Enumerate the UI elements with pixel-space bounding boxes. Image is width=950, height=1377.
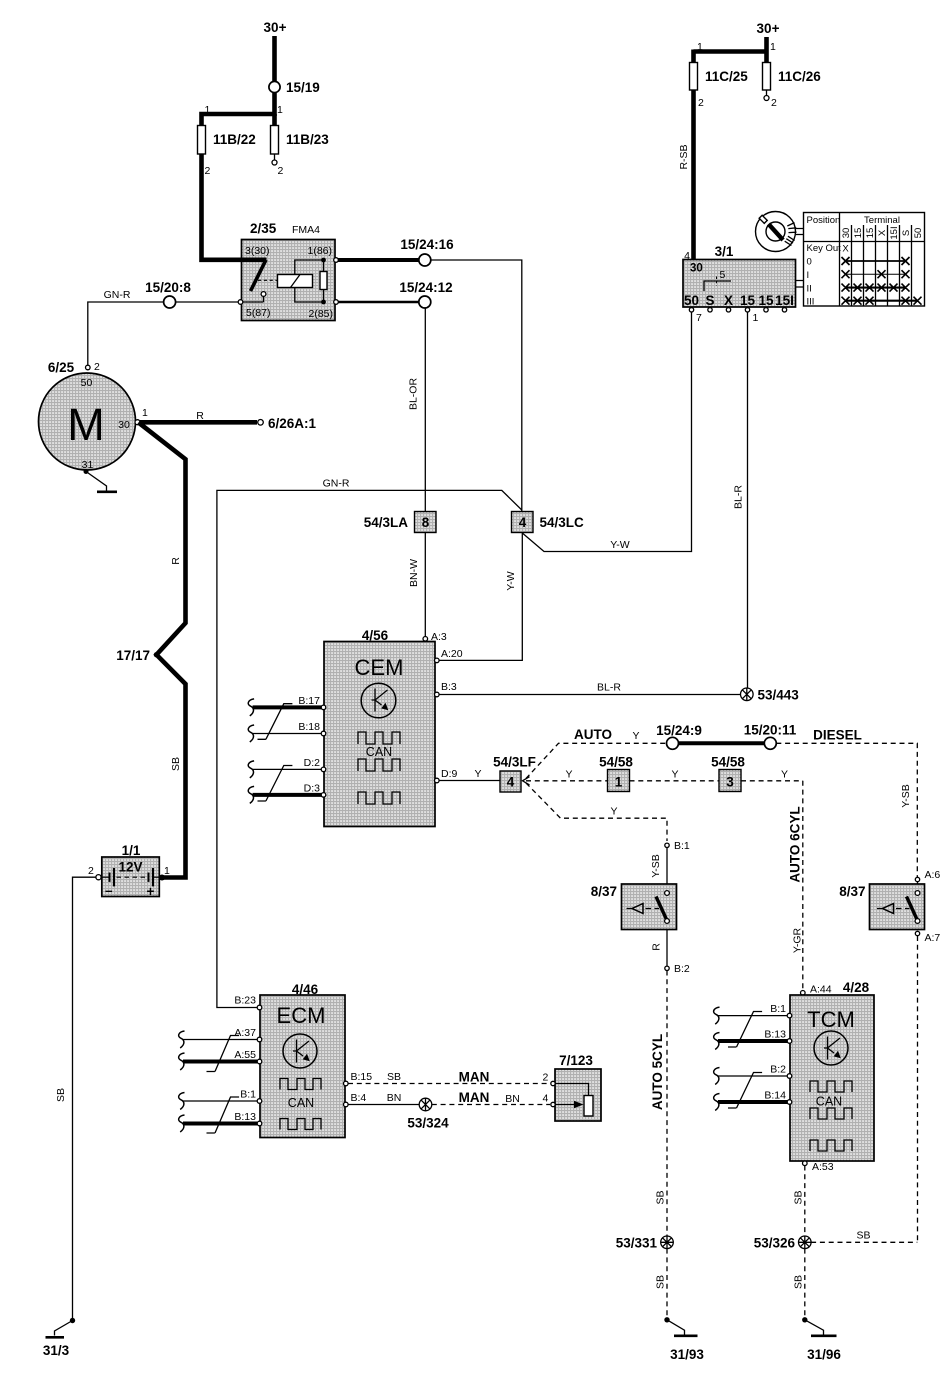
- svg-text:54/3LF: 54/3LF: [493, 755, 536, 770]
- svg-text:2: 2: [278, 165, 284, 177]
- svg-text:Y-W: Y-W: [610, 539, 630, 551]
- svg-text:FMA4: FMA4: [292, 224, 320, 236]
- svg-text:4: 4: [543, 1093, 549, 1105]
- svg-text:8/37: 8/37: [839, 884, 865, 899]
- svg-text:–: –: [105, 883, 113, 898]
- wire fuse 11B/22 pin 2 down to relay: [202, 154, 242, 260]
- svg-text:Y: Y: [671, 769, 678, 781]
- svg-text:BL-R: BL-R: [597, 682, 621, 694]
- svg-text:4/28: 4/28: [843, 980, 870, 995]
- switch 8/37 left pin B:1: [665, 843, 669, 847]
- wire Y dashed middle branch: [526, 780, 607, 782]
- svg-text:A:7: A:7: [925, 932, 941, 944]
- relay 2/35 FMA4: [242, 240, 336, 321]
- fuse 11B/23: [271, 126, 279, 155]
- connector 54/3LA: [415, 512, 437, 533]
- svg-text:30: 30: [841, 228, 852, 239]
- svg-text:Y-SB: Y-SB: [900, 784, 912, 808]
- ECM pin A:55: [257, 1059, 262, 1064]
- svg-text:15/24:9: 15/24:9: [656, 723, 702, 738]
- CEM pin A:20: [435, 658, 440, 663]
- svg-text:5: 5: [720, 269, 726, 281]
- svg-text:B:13: B:13: [764, 1029, 786, 1041]
- svg-text:31/96: 31/96: [807, 1347, 841, 1362]
- svg-text:15: 15: [758, 293, 774, 308]
- svg-text:4: 4: [507, 775, 515, 790]
- svg-text:A:44: A:44: [810, 984, 832, 996]
- motor pin 1 (30): [135, 420, 140, 425]
- ECM clock symbol: [283, 1034, 317, 1068]
- wire AUTO 5CYL dashed down: [666, 971, 668, 1237]
- svg-text:15/19: 15/19: [286, 80, 320, 95]
- svg-text:11C/26: 11C/26: [778, 69, 821, 84]
- wire SB dashed TCM A:53 to 53/326: [804, 1166, 806, 1237]
- CEM CAN waves: [358, 732, 400, 744]
- ground (motor): [86, 472, 107, 491]
- svg-text:SB: SB: [792, 1275, 804, 1289]
- svg-text:D:2: D:2: [304, 757, 321, 769]
- svg-text:R: R: [196, 410, 204, 422]
- svg-text:31/3: 31/3: [43, 1343, 70, 1358]
- svg-text:SB: SB: [655, 1190, 667, 1204]
- svg-text:BL-R: BL-R: [733, 485, 745, 509]
- svg-text:Y-W: Y-W: [505, 571, 517, 591]
- switch 8/37 left pin B:2: [665, 966, 669, 970]
- ECM pin B:23: [257, 1005, 262, 1010]
- table row 0 contacts: [842, 257, 910, 265]
- svg-text:MAN: MAN: [459, 1070, 490, 1085]
- svg-text:50: 50: [81, 377, 93, 389]
- svg-text:53/443: 53/443: [758, 688, 800, 703]
- svg-text:AUTO 5CYL: AUTO 5CYL: [650, 1034, 665, 1110]
- position/terminal table: [804, 213, 925, 307]
- TCM pin A:53: [803, 1161, 808, 1166]
- svg-text:3(30): 3(30): [245, 245, 270, 257]
- wire SB battery pin 2 to ground 31/3: [73, 877, 97, 1318]
- svg-text:0: 0: [807, 257, 812, 268]
- ECM pin B:4: [344, 1102, 349, 1107]
- svg-text:Position: Position: [807, 215, 841, 226]
- svg-text:1: 1: [205, 104, 211, 116]
- connector 15/19: [269, 81, 280, 92]
- wire BN ECM B:4 to splice 53/324: [348, 1104, 420, 1106]
- wire Y CEM D:9 to 54/3LF: [439, 780, 500, 782]
- svg-text:53/326: 53/326: [754, 1235, 796, 1250]
- wire junction branch to fuses: [202, 114, 275, 126]
- svg-text:R: R: [170, 557, 182, 565]
- svg-text:S: S: [705, 293, 714, 308]
- svg-text:15: 15: [865, 228, 876, 239]
- svg-text:A:20: A:20: [441, 648, 463, 660]
- svg-text:1: 1: [770, 41, 776, 53]
- svg-text:54/58: 54/58: [599, 755, 633, 770]
- wire SB MAN dashed B:15 to 7/123 pin 2: [348, 1083, 550, 1085]
- svg-text:1: 1: [277, 104, 283, 116]
- ignition box to table links: [796, 281, 804, 288]
- wire SB dashed to ground: [666, 1249, 668, 1317]
- svg-text:2: 2: [771, 97, 777, 109]
- svg-text:11C/25: 11C/25: [705, 69, 748, 84]
- CEM pin B:3: [435, 692, 440, 697]
- svg-text:CAN: CAN: [366, 745, 392, 759]
- ECM pin B:1: [257, 1099, 262, 1104]
- svg-text:Key Out: Key Out: [807, 243, 842, 254]
- wire Y-W 54/3LC down to CEM A:20: [439, 533, 523, 661]
- TCM CAN waves: [810, 1081, 852, 1092]
- wire BL-R CEM B:3 to splice 53/443: [439, 694, 741, 696]
- wire Y dashed lower branch to 8/37 B:1: [526, 783, 667, 841]
- CEM pin D:3: [321, 793, 326, 798]
- svg-text:CAN: CAN: [288, 1096, 314, 1110]
- wire terminal 50 pin 7 down to Y-W run: [522, 312, 691, 552]
- TCM pin B:13: [787, 1039, 792, 1044]
- wire 15/24:16 to 54/3LC: [431, 260, 522, 512]
- ignition internal switch symbol pin 5: [704, 281, 731, 291]
- wire fuse 11C/26 pin 2 stub: [766, 90, 768, 96]
- wire SB dashed down to ground: [804, 1249, 806, 1317]
- svg-text:15I: 15I: [889, 226, 900, 239]
- ignition key symbol: [756, 212, 796, 252]
- svg-text:SB: SB: [856, 1230, 870, 1242]
- CEM pin A:3: [423, 637, 428, 642]
- svg-text:BL-OR: BL-OR: [408, 378, 420, 411]
- CEM twisted pair B:17/B:18: [253, 705, 322, 709]
- CEM clock symbol: [361, 683, 396, 718]
- ECM twisted pair A:37/A:55: [183, 1039, 257, 1041]
- svg-text:7/123: 7/123: [559, 1053, 593, 1068]
- CEM pin B:18: [321, 731, 326, 736]
- svg-text:4: 4: [684, 250, 690, 262]
- svg-text:15/20:8: 15/20:8: [145, 280, 191, 295]
- svg-text:Y-SB: Y-SB: [650, 854, 662, 878]
- svg-text:12V: 12V: [118, 860, 142, 875]
- wire link 15/24:9 to 15/20:11: [679, 741, 765, 745]
- svg-text:53/331: 53/331: [616, 1235, 658, 1250]
- wire R motor to 6/26A:1: [140, 420, 257, 425]
- svg-text:8: 8: [422, 515, 430, 530]
- wire 30+ down and branch: [694, 37, 767, 63]
- ECM pin A:37: [257, 1037, 262, 1042]
- svg-text:X: X: [877, 229, 888, 236]
- svg-text:B:1: B:1: [240, 1089, 256, 1101]
- switch 8/37 right pin A:7: [915, 931, 919, 935]
- svg-text:30+: 30+: [757, 21, 780, 36]
- svg-text:B:1: B:1: [770, 1003, 786, 1015]
- relay coil: [278, 275, 313, 288]
- svg-text:15/20:11: 15/20:11: [744, 723, 797, 738]
- svg-text:7: 7: [696, 312, 702, 324]
- wire DIESEL dashed down to right 8/37: [776, 743, 917, 877]
- wire R-SB fuse 11C/25 to ignition switch: [691, 90, 696, 266]
- svg-text:1(86): 1(86): [307, 245, 332, 257]
- wire fuse 11B/23 pin 2 stub: [274, 154, 276, 160]
- svg-text:Y: Y: [632, 730, 639, 742]
- svg-text:30: 30: [690, 263, 703, 275]
- wire relay 1(86) to 15/24:16: [338, 258, 419, 262]
- svg-text:III: III: [807, 297, 815, 308]
- svg-text:1: 1: [615, 775, 623, 790]
- TCM pin B:2: [787, 1074, 792, 1079]
- svg-text:Y: Y: [474, 768, 481, 780]
- relay switch blade pin 30: [242, 257, 267, 262]
- svg-text:R-SB: R-SB: [678, 144, 690, 169]
- svg-text:B:2: B:2: [770, 1064, 786, 1076]
- svg-text:53/324: 53/324: [407, 1116, 449, 1131]
- svg-text:15I: 15I: [775, 293, 794, 308]
- svg-text:BN: BN: [387, 1092, 402, 1104]
- svg-text:SB: SB: [387, 1071, 401, 1083]
- svg-text:M: M: [67, 399, 105, 450]
- svg-text:A:55: A:55: [234, 1049, 256, 1061]
- wire Y dashed AUTO 6CYL down to TCM A:44: [741, 781, 803, 990]
- svg-text:Y: Y: [565, 769, 572, 781]
- TCM pin B:1: [787, 1013, 792, 1018]
- svg-text:R: R: [651, 943, 663, 951]
- svg-text:TCM: TCM: [807, 1007, 855, 1032]
- svg-text:B:2: B:2: [674, 963, 690, 975]
- wire MAN BN dashed to 7/123 pin 4: [432, 1104, 550, 1106]
- connector 15/20:11: [764, 737, 776, 749]
- wire BN-W 54/3LA down to CEM A:3: [424, 533, 426, 637]
- splice 53/331: [661, 1236, 674, 1249]
- TCM twisted pair B:2/B:14: [718, 1075, 788, 1077]
- CEM pin D:2: [321, 767, 326, 772]
- svg-text:B:17: B:17: [298, 695, 320, 707]
- splice 53/326: [799, 1236, 812, 1249]
- battery plates: [102, 868, 160, 886]
- svg-text:50: 50: [913, 228, 924, 239]
- relay coil link dashed: [258, 279, 277, 281]
- ground 31/93: [667, 1320, 685, 1335]
- svg-text:BN-W: BN-W: [408, 559, 420, 587]
- svg-text:15/24:12: 15/24:12: [399, 280, 452, 295]
- svg-text:AUTO: AUTO: [574, 727, 612, 742]
- ECM pin B:13: [257, 1121, 262, 1126]
- connector 15/20:8: [164, 296, 176, 308]
- svg-text:B:4: B:4: [351, 1092, 367, 1104]
- wire dashed A:7 down to SB run: [917, 936, 919, 1242]
- svg-text:2: 2: [88, 865, 94, 877]
- svg-text:2: 2: [94, 361, 100, 373]
- wire R below switch: [666, 930, 668, 967]
- svg-text:AUTO 6CYL: AUTO 6CYL: [788, 806, 803, 882]
- svg-text:17/17: 17/17: [116, 648, 150, 663]
- svg-text:D:3: D:3: [304, 783, 321, 795]
- svg-text:II: II: [807, 284, 812, 295]
- svg-text:54/3LA: 54/3LA: [364, 515, 409, 530]
- svg-text:2: 2: [543, 1072, 549, 1084]
- svg-text:6/25: 6/25: [48, 360, 75, 375]
- motor pin 2 (50): [86, 365, 91, 370]
- svg-text:2(85): 2(85): [308, 308, 333, 320]
- svg-text:BN: BN: [505, 1093, 520, 1105]
- svg-text:2/35: 2/35: [250, 221, 277, 236]
- svg-text:31: 31: [82, 459, 94, 471]
- fuse 11C/26: [763, 63, 771, 91]
- svg-text:I: I: [807, 270, 810, 281]
- splice 53/443: [741, 688, 754, 701]
- svg-text:B:18: B:18: [298, 721, 320, 733]
- TCM pin B:14: [787, 1100, 792, 1105]
- wire SB dashed splice to right riser: [811, 1241, 917, 1243]
- relay contact 87: [261, 292, 266, 297]
- svg-text:2: 2: [698, 97, 704, 109]
- table row II contacts: [842, 284, 910, 292]
- svg-text:A:53: A:53: [812, 1161, 834, 1173]
- wire R thick motor feed down: [139, 423, 186, 878]
- connector 15/24:12: [419, 296, 431, 308]
- svg-text:1/1: 1/1: [122, 843, 141, 858]
- svg-text:15: 15: [740, 293, 756, 308]
- svg-text:5(87): 5(87): [246, 307, 271, 319]
- connector 54/3LF: [500, 771, 521, 792]
- svg-text:Y-GR: Y-GR: [792, 927, 804, 953]
- relay resistor: [320, 272, 327, 290]
- connector 15/24:16: [419, 254, 431, 266]
- key to table links: [796, 229, 804, 235]
- svg-text:B:13: B:13: [234, 1111, 256, 1123]
- svg-text:CEM: CEM: [355, 655, 404, 680]
- ECM twisted pair B:1/B:13: [183, 1100, 257, 1102]
- connector 17/17: [154, 652, 159, 657]
- CEM pin B:17: [321, 705, 326, 710]
- svg-text:A:6: A:6: [925, 869, 941, 881]
- wire relay 5(87) to 15/20:8: [176, 301, 238, 303]
- wire Y-SB B:1 to switch: [666, 848, 668, 885]
- TCM clock symbol: [814, 1031, 848, 1065]
- wire relay 2(85) to 15/24:12: [338, 301, 419, 304]
- svg-text:A:37: A:37: [234, 1027, 256, 1039]
- wire 30+ down to junction: [272, 36, 277, 116]
- svg-text:1: 1: [142, 407, 148, 419]
- CEM pin D:9: [435, 778, 440, 783]
- svg-text:3: 3: [726, 775, 734, 790]
- svg-text:11B/23: 11B/23: [286, 132, 329, 147]
- svg-text:1: 1: [164, 865, 170, 877]
- svg-text:3/1: 3/1: [715, 244, 734, 259]
- svg-text:B:1: B:1: [674, 840, 690, 852]
- table row III contacts: [842, 297, 922, 305]
- switch 8/37 (6-cyl diesel): [870, 884, 925, 930]
- wire GN-R horizontal to 54/3LC and down to ECM B:23: [217, 490, 522, 1007]
- svg-text:GN-R: GN-R: [104, 289, 131, 301]
- svg-text:B:23: B:23: [234, 995, 256, 1007]
- wire GN-R to motor pin 50: [88, 302, 164, 365]
- svg-text:4: 4: [519, 515, 527, 530]
- svg-text:B:14: B:14: [764, 1090, 786, 1102]
- svg-text:SB: SB: [793, 1190, 805, 1204]
- 7/123 internal resistor: [555, 1084, 588, 1096]
- svg-text:30: 30: [118, 419, 130, 431]
- svg-text:11B/22: 11B/22: [213, 132, 256, 147]
- svg-text:X: X: [842, 244, 849, 255]
- svg-text:1: 1: [697, 41, 703, 53]
- svg-text:SB: SB: [170, 757, 182, 771]
- CEM twisted pair D:2/D:3: [253, 768, 322, 770]
- wire BL-OR 15/24:12 down to 54/3LA: [424, 308, 426, 512]
- wire Y dashed between 54/58: [630, 780, 719, 782]
- svg-text:+: +: [147, 884, 155, 899]
- wire BL-R terminal 15 pin 1 down to 53/443: [747, 312, 749, 688]
- svg-text:D:9: D:9: [441, 768, 458, 780]
- ignition switch 3/1: [683, 260, 796, 308]
- svg-text:B:15: B:15: [351, 1071, 373, 1083]
- svg-text:GN-R: GN-R: [323, 478, 350, 490]
- ignition pins: [689, 308, 693, 312]
- fuse 11B/22: [198, 126, 206, 155]
- svg-text:2: 2: [205, 165, 211, 177]
- svg-text:X: X: [724, 293, 733, 308]
- svg-text:SB: SB: [655, 1275, 667, 1289]
- svg-text:31/93: 31/93: [670, 1347, 704, 1362]
- table row I contacts: [842, 270, 910, 278]
- wire Y dashed to AUTO row: [526, 743, 666, 778]
- switch 8/37 right pin A:6: [915, 877, 919, 881]
- ECM pin B:15: [344, 1081, 349, 1086]
- connector 15/24:9: [667, 737, 679, 749]
- svg-text:54/58: 54/58: [711, 755, 745, 770]
- ground 31/3: [55, 1321, 73, 1336]
- svg-text:SB: SB: [55, 1088, 67, 1102]
- svg-text:1: 1: [753, 312, 759, 324]
- svg-text:S: S: [901, 230, 912, 236]
- svg-text:15: 15: [853, 228, 864, 239]
- svg-text:Y: Y: [781, 769, 788, 781]
- svg-text:B:3: B:3: [441, 681, 457, 693]
- ground 31/96: [805, 1320, 824, 1335]
- ECM CAN waves: [280, 1079, 321, 1090]
- svg-text:30+: 30+: [264, 20, 287, 35]
- TCM twisted pair B:1/B:13: [718, 1015, 788, 1017]
- svg-text:CAN: CAN: [816, 1095, 842, 1109]
- svg-text:15/24:16: 15/24:16: [400, 237, 454, 252]
- fuse 11C/25: [690, 63, 698, 91]
- svg-text:MAN: MAN: [459, 1090, 490, 1105]
- svg-text:Terminal: Terminal: [864, 215, 900, 226]
- switch 8/37 (5-cyl): [622, 884, 677, 930]
- splice 53/324: [419, 1098, 432, 1111]
- svg-text:Y: Y: [610, 806, 617, 818]
- svg-text:6/26A:1: 6/26A:1: [268, 416, 317, 431]
- svg-text:50: 50: [684, 293, 699, 308]
- svg-text:ECM: ECM: [277, 1003, 326, 1028]
- connector 54/3LC: [512, 512, 534, 533]
- svg-text:A:3: A:3: [431, 631, 447, 643]
- svg-text:54/3LC: 54/3LC: [540, 515, 585, 530]
- svg-text:8/37: 8/37: [591, 884, 617, 899]
- svg-text:DIESEL: DIESEL: [813, 728, 862, 743]
